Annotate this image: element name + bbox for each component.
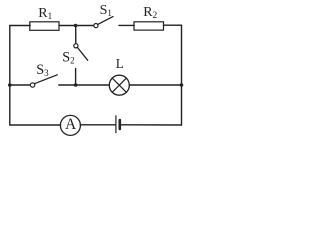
battery cell [116,116,120,133]
wire top-left horizontal [10,25,30,27]
wire battery to right [121,124,182,126]
wire left vertical [9,26,11,126]
svg-text:R2: R2 [143,5,157,21]
wire between S1 and R2 [119,24,134,26]
wire between R1 and S1 [59,25,94,27]
wire ammeter to battery [80,124,115,126]
node junction left/middle wire [8,83,12,87]
ammeter A [60,115,80,135]
svg-text:L: L [116,56,124,71]
resistor R2 [134,5,164,30]
svg-text:S3: S3 [36,62,49,78]
svg-text:R1: R1 [38,6,52,22]
svg-text:S2: S2 [62,49,74,65]
switch S2 [62,26,87,85]
wire lamp to right [129,84,181,86]
node junction S2/middle wire [74,83,78,87]
wire top-right horizontal [164,24,182,26]
switch S3 [10,62,58,87]
svg-text:S1: S1 [100,3,112,18]
lamp L [109,56,129,95]
resistor R1 [30,6,59,31]
wire right vertical [181,25,183,125]
node junction R1/S2 [74,24,78,28]
wire S3 to lamp [59,84,110,86]
node junction middle/right wire [180,83,184,87]
switch S1 [94,3,113,28]
svg-text:A: A [65,116,76,133]
wire bottom-left horizontal [10,124,61,126]
